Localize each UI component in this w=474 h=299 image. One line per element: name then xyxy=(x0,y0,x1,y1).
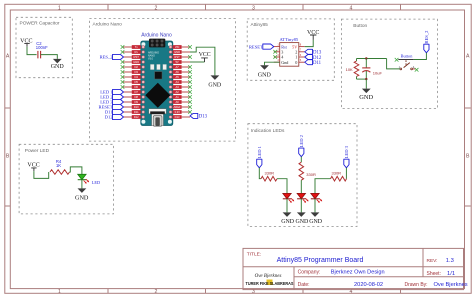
ATTiny85 pin lines xyxy=(274,46,280,48)
net port VCC (attiny) xyxy=(310,35,316,40)
wire nano 5V pin xyxy=(190,61,205,63)
svg-text:Button: Button xyxy=(353,23,367,29)
wire LED3 to ground xyxy=(314,199,316,213)
ground (button block) xyxy=(362,89,371,94)
svg-text:A: A xyxy=(466,53,470,59)
svg-text:Company:: Company: xyxy=(298,269,321,275)
no-connect button pins xyxy=(395,58,399,62)
svg-text:Power LED: Power LED xyxy=(25,148,50,154)
svg-text:A0: A0 xyxy=(175,100,179,104)
wire LED2 to ground xyxy=(300,199,302,213)
svg-text:D2: D2 xyxy=(134,65,138,69)
svg-text:Gnd: Gnd xyxy=(281,60,289,65)
svg-text:RES_2: RES_2 xyxy=(424,30,429,44)
net tag LED 1 (vertical) xyxy=(257,159,262,168)
svg-text:RESET: RESET xyxy=(249,44,263,49)
LED1 (red) xyxy=(283,193,291,198)
svg-text:A1: A1 xyxy=(175,95,179,99)
svg-text:0: 0 xyxy=(295,60,297,65)
svg-text:Drawn By:: Drawn By: xyxy=(405,282,428,288)
svg-text:V3.0: V3.0 xyxy=(148,57,154,60)
pin name boxes right xyxy=(173,45,182,49)
wire LED1 to ground xyxy=(286,199,288,213)
svg-text:D11: D11 xyxy=(313,61,322,66)
power LED (green) xyxy=(78,174,86,179)
wire top rail (button block) xyxy=(357,58,387,60)
svg-text:A7: A7 xyxy=(175,65,179,69)
net tag D11 (attiny) xyxy=(305,60,313,65)
wire R4 to LED xyxy=(70,167,82,174)
USB connector xyxy=(149,109,166,126)
net tag LED 3 (nano left) xyxy=(113,99,124,104)
ground (LED2) xyxy=(297,212,306,217)
svg-text:D3: D3 xyxy=(134,70,138,74)
svg-text:REV:: REV: xyxy=(427,258,438,264)
wire nano GND pin xyxy=(190,47,215,75)
svg-text:B: B xyxy=(6,154,10,160)
wire C2 to GND xyxy=(41,55,58,59)
svg-text:GND: GND xyxy=(296,219,310,225)
svg-text:1: 1 xyxy=(58,5,61,11)
ground (power led) xyxy=(78,188,87,193)
svg-text:TITLE:: TITLE: xyxy=(247,251,261,257)
LED3 (red) xyxy=(311,193,319,198)
wire R2 to LED2 xyxy=(300,180,302,193)
svg-text:GND: GND xyxy=(281,219,295,225)
block outline: Attiny85 xyxy=(247,19,334,80)
wire attiny gnd xyxy=(265,62,280,65)
svg-text:Attiny85: Attiny85 xyxy=(251,22,269,28)
svg-text:GND: GND xyxy=(309,219,323,225)
wire LED1 tag to R1 xyxy=(259,168,261,179)
svg-text:AREF: AREF xyxy=(174,105,182,109)
net tag RESET (nano left) xyxy=(113,104,124,109)
svg-text:D12: D12 xyxy=(134,115,139,119)
svg-text:D13: D13 xyxy=(175,115,180,119)
net tag D13 (attiny) xyxy=(305,49,313,54)
block outline: POWER Capacitor xyxy=(16,17,72,77)
LED2 (red) xyxy=(297,193,305,198)
svg-text:5V: 5V xyxy=(175,60,178,64)
svg-text:D5: D5 xyxy=(134,80,138,84)
svg-text:Attiny85 Programmer Board: Attiny85 Programmer Board xyxy=(277,257,364,264)
title block outer xyxy=(243,248,464,289)
mounting holes xyxy=(141,42,145,46)
net tag RES_2 (button, vertical) xyxy=(424,44,429,53)
wire LED2 tag to R2 xyxy=(300,157,302,163)
Arduino Nano pin lines right side xyxy=(182,46,190,48)
svg-text:3.3V: 3.3V xyxy=(174,110,180,114)
net tag D11 (nano left) xyxy=(113,109,124,114)
svg-text:1K: 1K xyxy=(56,163,61,168)
block outline: Indication LEDs xyxy=(248,124,357,227)
junction RC bottom xyxy=(365,78,367,80)
ground (nano) xyxy=(211,75,220,80)
svg-text:D10: D10 xyxy=(134,105,139,109)
ISP header xyxy=(149,39,165,48)
svg-text:POWER Capacitor: POWER Capacitor xyxy=(20,20,60,26)
net tag LED 2 (nano left) xyxy=(113,94,124,99)
svg-text:GND: GND xyxy=(208,82,222,88)
svg-text:A6: A6 xyxy=(175,70,179,74)
svg-text:1/1: 1/1 xyxy=(447,271,455,277)
svg-text:Arduino Nano: Arduino Nano xyxy=(141,32,172,38)
svg-text:RST: RST xyxy=(134,55,140,59)
svg-text:330R: 330R xyxy=(332,171,342,176)
wire to ground (button block) xyxy=(365,79,367,89)
svg-text:Date:: Date: xyxy=(298,282,310,288)
svg-text:Ove Bjerknes: Ove Bjerknes xyxy=(434,282,468,288)
svg-text:Bjerknez Own Design: Bjerknez Own Design xyxy=(331,270,385,276)
svg-text:LED 3: LED 3 xyxy=(344,145,349,158)
IC U2 ATTiny85 body xyxy=(280,43,299,67)
MCU chip (diamond) xyxy=(145,83,170,108)
wire attiny 5V to VCC xyxy=(305,40,314,47)
svg-text:Sheet:: Sheet: xyxy=(427,271,441,277)
block outline: Power LED xyxy=(19,144,113,214)
net tag D13 (nano right) xyxy=(190,113,198,118)
svg-text:ATTiny85: ATTiny85 xyxy=(280,37,299,42)
pushbutton SW1 xyxy=(398,59,413,61)
svg-text:2020-08-02: 2020-08-02 xyxy=(354,282,383,288)
svg-text:A3: A3 xyxy=(175,85,179,89)
capacitor 10uF (polarized) xyxy=(365,59,367,68)
resistor R? 10K xyxy=(356,59,358,62)
net tag LED 1 (nano left) xyxy=(113,89,124,94)
wire R3 to LED3 xyxy=(315,179,331,194)
svg-text:VIN: VIN xyxy=(175,45,180,49)
wire LED3 tag to R3 xyxy=(345,168,347,179)
svg-text:D8: D8 xyxy=(134,95,138,99)
svg-text:A: A xyxy=(6,53,10,59)
svg-text:D7: D7 xyxy=(134,90,138,94)
svg-text:GND: GND xyxy=(359,94,373,101)
frame column ticks xyxy=(107,4,109,10)
net tag LED 3 (vertical) xyxy=(344,159,349,168)
ground (power capacitor) xyxy=(53,59,62,64)
svg-text:Arduino Nano: Arduino Nano xyxy=(93,21,123,27)
resistor 330R (LED3) xyxy=(331,176,347,181)
no-connect marks right pins xyxy=(188,45,192,49)
resistor R4 xyxy=(50,170,70,175)
svg-text:Button: Button xyxy=(401,54,414,59)
svg-text:RST: RST xyxy=(174,55,180,59)
SMD capacitors xyxy=(150,64,154,69)
svg-text:2: 2 xyxy=(155,289,158,295)
svg-text:LED 1: LED 1 xyxy=(257,145,262,158)
svg-text:1.3: 1.3 xyxy=(446,258,454,264)
junction RC top xyxy=(365,57,367,59)
net port VCC (nano) xyxy=(201,58,208,62)
svg-text:A2: A2 xyxy=(175,90,179,94)
capacitor C2 xyxy=(38,51,41,59)
resistor 330R (LED1) xyxy=(261,176,277,181)
net tag RES_2 (nano left) xyxy=(113,54,124,59)
svg-text:A4: A4 xyxy=(175,80,179,84)
no-connect attiny pins 2,3 xyxy=(273,50,277,54)
svg-text:330R: 330R xyxy=(265,171,275,176)
board pads left xyxy=(142,46,145,49)
wire bottom rail (button block) xyxy=(357,78,367,80)
wire RES_2 to button xyxy=(414,53,427,60)
wire LED to ground xyxy=(81,180,83,189)
net tag D12 (nano left) xyxy=(113,114,124,119)
net tag D12 (attiny) xyxy=(305,55,313,60)
net tag LED 2 (vertical) xyxy=(299,148,304,157)
svg-text:TURER FIKE SLABRERAS: TURER FIKE SLABRERAS xyxy=(246,281,294,286)
ground (LED1) xyxy=(283,212,292,217)
svg-text:D12: D12 xyxy=(105,115,114,120)
wire VCC to R4 xyxy=(34,171,49,178)
svg-text:D13: D13 xyxy=(199,115,208,120)
svg-text:B: B xyxy=(466,154,470,160)
svg-text:10uF: 10uF xyxy=(373,71,383,76)
Arduino Nano pin lines left side xyxy=(123,46,132,48)
svg-text:2: 2 xyxy=(155,5,158,11)
ground (LED3) xyxy=(311,212,320,217)
svg-text:GND: GND xyxy=(51,64,65,70)
svg-text:Indication LEDs: Indication LEDs xyxy=(251,128,285,134)
svg-text:D6: D6 xyxy=(134,85,138,89)
svg-text:LED 2: LED 2 xyxy=(299,134,304,147)
ground (attiny) xyxy=(260,65,269,70)
block outline: Button xyxy=(341,19,437,108)
svg-text:4: 4 xyxy=(350,5,353,11)
wire RC node to button xyxy=(387,59,400,69)
svg-text:LED: LED xyxy=(92,180,100,185)
svg-text:D9: D9 xyxy=(134,100,138,104)
svg-text:GND: GND xyxy=(174,50,180,54)
Arduino Nano board body xyxy=(141,41,173,126)
svg-text:GND: GND xyxy=(75,194,89,201)
svg-text:RES_2: RES_2 xyxy=(100,55,114,60)
svg-text:3: 3 xyxy=(252,5,255,11)
svg-text:VCC: VCC xyxy=(199,52,211,58)
pin name boxes left xyxy=(132,45,141,49)
wire VCC to C2 xyxy=(27,47,37,55)
svg-text:GND: GND xyxy=(133,60,139,64)
net tag RESET (attiny) xyxy=(263,44,274,49)
wire R1 to LED1 xyxy=(277,179,287,194)
board pads right xyxy=(169,46,172,49)
reset button xyxy=(155,72,162,79)
no-connect marks left pins xyxy=(121,45,125,49)
block outline: Arduino Nano xyxy=(89,18,235,141)
svg-text:Ove Bjerknes: Ove Bjerknes xyxy=(255,274,282,279)
svg-text:330R: 330R xyxy=(306,172,316,177)
svg-text:VCC: VCC xyxy=(307,30,319,36)
svg-text:D11: D11 xyxy=(134,110,139,114)
svg-text:D4: D4 xyxy=(134,75,138,79)
svg-text:1: 1 xyxy=(58,289,61,295)
svg-text:A5: A5 xyxy=(175,75,179,79)
svg-text:GND: GND xyxy=(258,72,272,78)
resistor 330R (LED2) xyxy=(299,162,304,180)
svg-text:10K: 10K xyxy=(346,67,353,72)
svg-text:100nF: 100nF xyxy=(36,45,48,50)
